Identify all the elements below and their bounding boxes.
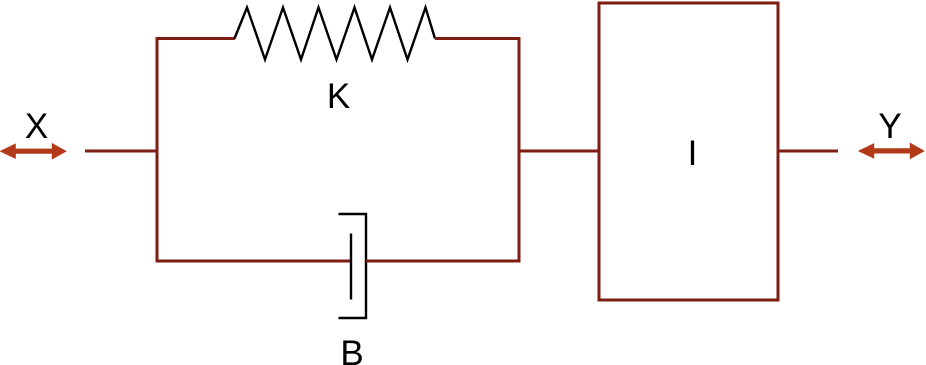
wire loop left vertical	[156, 37, 159, 263]
inertia box I	[599, 3, 778, 300]
wire box to Y	[777, 150, 838, 153]
motion arrow Y	[858, 143, 925, 160]
svg-text:X: X	[25, 107, 48, 146]
damper B piston rod	[350, 234, 352, 300]
wire loop top left segment	[156, 37, 236, 40]
wire loop bottom right segment	[366, 260, 521, 263]
motion arrow X	[0, 143, 67, 160]
wire loop bottom left segment	[156, 260, 353, 263]
wire loop top right segment	[435, 37, 521, 40]
svg-text:Y: Y	[878, 107, 901, 146]
spring K	[235, 8, 436, 60]
svg-text:B: B	[340, 334, 363, 365]
wire loop right vertical	[518, 37, 521, 263]
svg-text:K: K	[327, 77, 350, 116]
wire X input	[85, 150, 159, 153]
wire loop to box	[519, 150, 600, 153]
svg-text:I: I	[688, 134, 698, 173]
damper B cylinder	[339, 214, 367, 318]
